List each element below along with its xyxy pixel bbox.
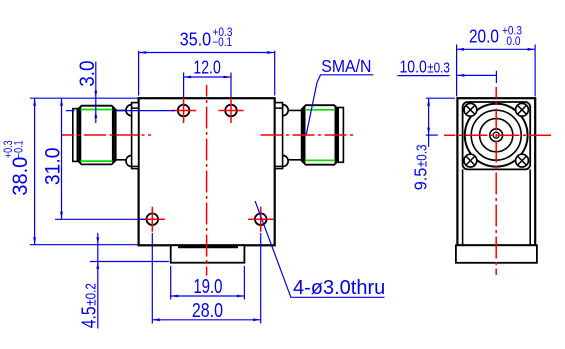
- label SMA/N with leader: [306, 75, 373, 135]
- svg-text:9.5: 9.5: [411, 168, 431, 191]
- side view screw bottom-right: [516, 154, 529, 167]
- SMA connector left: thread lines (green): [81, 110, 113, 162]
- svg-text:±0.3: ±0.3: [413, 145, 430, 168]
- dimension 9.5 ±0.3: [426, 98, 455, 147]
- side view N flange square: [463, 102, 531, 169]
- N connector right: flange plate: [275, 103, 283, 169]
- dimension 20.0 +0.3/0.0: [457, 44, 535, 96]
- SMA connector left: flange plate: [132, 103, 139, 169]
- SMA connector left: mating face: [73, 109, 78, 162]
- SMA connector left: hex nut arcs: [126, 105, 132, 167]
- N connector right: washer step lines: [275, 108, 283, 166]
- hole bottom-left: [140, 207, 165, 232]
- side view screw top-left: [464, 103, 477, 116]
- SMA connector left: neck lines: [116, 110, 127, 159]
- hole bottom-right: [248, 207, 273, 232]
- body front view: [139, 98, 275, 245]
- svg-text:38.0: 38.0: [9, 157, 33, 196]
- dimension 10.0 ±0.3: [398, 71, 497, 83]
- svg-text:3.0: 3.0: [76, 61, 99, 87]
- centerline vertical side view: [495, 87, 497, 275]
- bottom tab front view: [171, 245, 245, 262]
- svg-text:−0.1: −0.1: [14, 140, 26, 158]
- N connector right: hex nut arcs: [283, 105, 289, 167]
- side view inner profile lines: [463, 169, 531, 245]
- svg-text:±0.3: ±0.3: [427, 59, 450, 76]
- label 4-ø3.0thru with leader: [255, 201, 384, 297]
- svg-text:±0.2: ±0.2: [82, 283, 99, 306]
- hole top-right: [218, 98, 243, 123]
- svg-text:SMA/N: SMA/N: [321, 56, 371, 76]
- dimension 28.0: [152, 233, 260, 324]
- dimension 12.0: [184, 73, 231, 98]
- dimension 19.0: [171, 266, 245, 300]
- centerline vertical main view: [206, 85, 208, 276]
- svg-text:19.0: 19.0: [193, 275, 222, 298]
- SMA connector left: barrel: [78, 106, 116, 165]
- svg-text:−0.1: −0.1: [212, 36, 232, 49]
- dimension 35.0 +0.3/-0.1: [139, 51, 275, 96]
- side view connector circles: [465, 104, 528, 167]
- centerline horizontal main view: [61, 134, 355, 136]
- dimension 4.5 ±0.2: [90, 233, 169, 329]
- centerline horizontal side view: [444, 134, 551, 136]
- svg-text:0.0: 0.0: [506, 35, 520, 48]
- side view outer body: [457, 98, 535, 245]
- svg-text:28.0: 28.0: [192, 299, 223, 321]
- svg-text:20.0: 20.0: [469, 26, 499, 47]
- N connector right: thread lines (green): [306, 110, 334, 161]
- svg-text:35.0: 35.0: [180, 28, 211, 49]
- svg-text:4.5: 4.5: [78, 306, 100, 328]
- dimension 3.0: [30, 62, 175, 124]
- hole top-left: [171, 98, 196, 123]
- svg-text:31.0: 31.0: [42, 148, 65, 186]
- dimension 38.0 +0.3/-0.1: [30, 98, 137, 245]
- N connector right: neck lines: [288, 110, 302, 159]
- side view screw bottom-left: [464, 154, 477, 167]
- svg-text:4-ø3.0thru: 4-ø3.0thru: [293, 277, 385, 299]
- svg-text:12.0: 12.0: [193, 58, 220, 78]
- N connector right: barrel: [302, 105, 339, 165]
- side view screw top-right: [516, 103, 529, 116]
- SMA connector left: washer step lines: [132, 108, 139, 166]
- svg-text:10.0: 10.0: [400, 57, 427, 77]
- side view bottom tab: [456, 245, 537, 262]
- N connector right: mating face: [338, 108, 343, 163]
- dimension 31.0: [55, 98, 146, 219]
